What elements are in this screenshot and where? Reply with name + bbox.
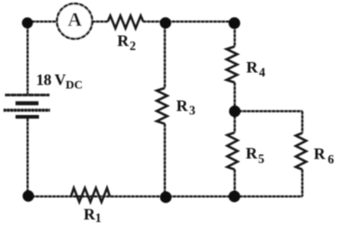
wire R2 to top-right corner [143,21,235,23]
resistor R6 [296,133,306,170]
wire R4 to junction node [234,83,236,133]
wire middle branch upper (top node to R3) [164,22,166,88]
battery V1 plate long [4,109,51,112]
wire middle branch lower (R3 to bottom node) [164,124,166,197]
ammeter A [57,4,92,39]
battery V1 plate short bottom [16,115,40,119]
resistor R5 [227,133,237,170]
resistor R2 [108,16,143,29]
resistor R1 [71,188,110,202]
node right junction [229,106,241,118]
wire R5 to bottom node [234,170,236,197]
wire ammeter to R2 [92,21,108,23]
wire far-right branch lower (R6 to bottom rail) [301,170,303,197]
battery V1 plate long top [5,94,50,96]
node top-right [229,17,241,29]
wire top-left node to ammeter [28,21,58,23]
svg-text:A: A [68,10,82,31]
resistor R4 [227,47,238,83]
node top-left [22,17,33,28]
battery V1 plate short [16,101,39,105]
wire left branch lower (battery - to bottom node) [27,118,29,196]
node top-middle [160,17,171,28]
wire bottom rail [28,195,303,197]
node bottom-right [229,191,241,203]
wire right branch top (corner to R4) [234,22,236,47]
wire left branch upper (node to battery +) [27,22,29,94]
wire far-right branch upper (corner to R6) [301,111,303,133]
node bottom-left [23,190,34,201]
resistor R3 [157,88,168,124]
wire junction to far-right corner [235,110,303,112]
node bottom-middle [160,191,172,203]
